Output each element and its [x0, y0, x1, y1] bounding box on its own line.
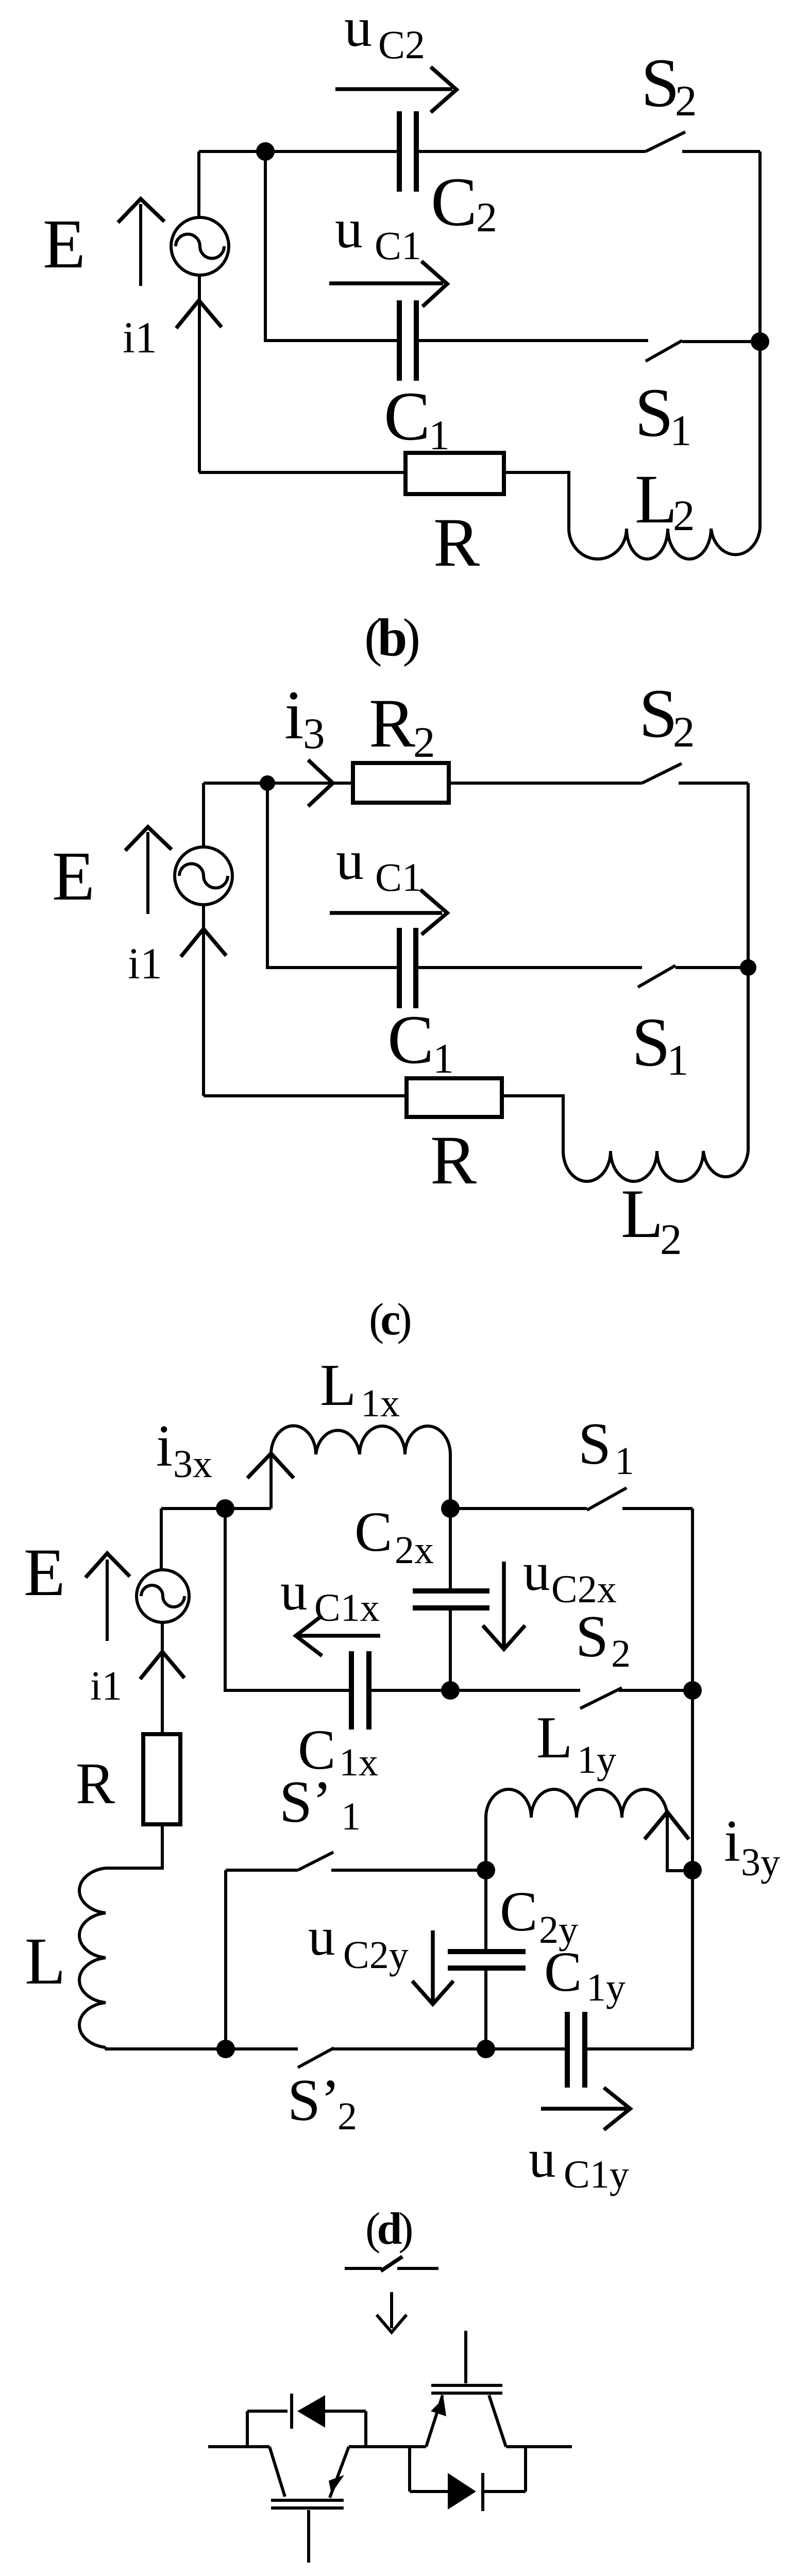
svg-text:1: 1	[667, 1036, 689, 1084]
IGBT Q1 emitter slant	[330, 2447, 349, 2498]
capacitor C2	[399, 111, 416, 192]
uC1x left arrow	[296, 1616, 380, 1656]
svg-text:3y: 3y	[741, 1841, 780, 1884]
current arrow i1 chevron	[181, 929, 226, 957]
svg-text:i: i	[284, 677, 304, 754]
wire below source	[198, 275, 201, 472]
wire third row vertical	[224, 1870, 227, 2049]
E arrow	[146, 832, 149, 914]
diode D1 branch	[247, 2410, 366, 2413]
svg-text:L: L	[635, 461, 677, 538]
svg-text:C2: C2	[378, 22, 425, 67]
AC source E	[137, 1570, 189, 1622]
svg-text:1x: 1x	[361, 1382, 400, 1425]
inductor L2	[563, 1151, 748, 1181]
svg-text:R: R	[369, 685, 415, 762]
switch S1	[587, 1488, 627, 1510]
svg-text:C: C	[384, 378, 430, 455]
node right	[740, 959, 756, 976]
uC1y right arrow	[541, 2088, 630, 2130]
E arrow	[106, 1560, 109, 1641]
svg-text:C1y: C1y	[564, 2153, 629, 2196]
svg-text:C: C	[387, 1002, 434, 1078]
wire top to switch	[416, 150, 646, 153]
main line right	[506, 2445, 572, 2448]
node A	[216, 1499, 234, 1518]
svg-text:u: u	[523, 1541, 550, 1602]
wire below source	[202, 905, 205, 1096]
svg-text:i: i	[156, 1413, 173, 1479]
svg-text:1: 1	[670, 406, 692, 455]
svg-text:2: 2	[611, 1632, 631, 1675]
wire resistor to inductor	[502, 1096, 563, 1151]
svg-text:u: u	[308, 1906, 335, 1967]
AC source E	[175, 847, 232, 905]
switch S'2	[298, 2048, 334, 2067]
node G	[683, 1861, 702, 1879]
diode D1 triangle	[297, 2395, 325, 2428]
wire node branch down	[265, 151, 399, 341]
svg-text:u: u	[344, 0, 372, 58]
right rail	[747, 783, 750, 1151]
emitter slant left with arrow	[426, 2395, 443, 2447]
svg-text:1y: 1y	[577, 1738, 616, 1782]
svg-text:C1: C1	[375, 223, 421, 268]
wire third row	[226, 1869, 298, 1872]
switch symbol	[345, 2267, 438, 2270]
svg-text:u: u	[280, 1561, 308, 1621]
node D	[683, 1681, 702, 1700]
wire second row	[225, 1509, 351, 1690]
wire mid to switch	[416, 339, 648, 342]
capacitor C2y	[448, 1952, 526, 1968]
IGBT Q1 gate bars	[271, 2500, 344, 2508]
svg-text:E: E	[52, 838, 95, 915]
wire node B down	[449, 1509, 452, 1591]
svg-text:2: 2	[337, 2095, 357, 2138]
node C	[441, 1681, 460, 1700]
inductor L1y	[486, 1789, 667, 1818]
node E	[477, 1861, 495, 1879]
wire bottom	[199, 471, 406, 474]
wire resistor to inductor	[504, 472, 569, 529]
svg-text:S: S	[641, 45, 680, 122]
wire top-left rail	[197, 151, 200, 217]
uC2 arrow	[335, 67, 457, 112]
switch S2	[646, 132, 685, 151]
svg-text:2: 2	[476, 194, 497, 241]
wire L1x right riser	[449, 1454, 452, 1509]
svg-text:S: S	[578, 1411, 611, 1477]
wire top	[161, 1507, 271, 1510]
switch S2	[580, 1688, 622, 1708]
right rail	[758, 151, 762, 529]
svg-text:S’: S’	[279, 1769, 332, 1835]
wire R2 to switch	[449, 782, 642, 785]
svg-text:S’: S’	[288, 2067, 340, 2133]
resistor R	[407, 1078, 502, 1117]
svg-text:E: E	[24, 1534, 65, 1610]
svg-text:C1: C1	[375, 855, 422, 900]
gate lead	[464, 2331, 467, 2383]
node bottom-left	[216, 2040, 235, 2058]
svg-text:(b): (b)	[364, 608, 418, 667]
node right	[751, 332, 769, 351]
svg-text:2x: 2x	[395, 1529, 434, 1572]
wire left rail top	[202, 783, 205, 847]
uC2y down arrow	[412, 1930, 453, 2004]
svg-text:L: L	[536, 1705, 572, 1770]
node top	[260, 775, 275, 791]
wire left rail top	[160, 1509, 163, 1570]
current arrow i1 chevron	[176, 300, 222, 328]
svg-text:(c): (c)	[369, 1295, 410, 1345]
svg-text:R: R	[433, 504, 480, 581]
wire bottom	[204, 1094, 407, 1097]
i3x riser with arrow	[269, 1454, 273, 1509]
diode D2 branch	[410, 2447, 526, 2492]
wire bottom	[106, 2047, 298, 2049]
inductor L1x	[271, 1426, 450, 1454]
switch S2	[642, 764, 682, 783]
wire second row to S2	[369, 1689, 580, 1692]
svg-text:C: C	[354, 1500, 392, 1563]
svg-text:1y: 1y	[586, 1966, 626, 2009]
svg-text:u: u	[336, 830, 364, 891]
svg-text:i1: i1	[123, 313, 157, 362]
AC source E	[171, 217, 229, 275]
svg-text:S: S	[576, 1604, 609, 1669]
wire R to L	[106, 1824, 162, 1868]
node top	[256, 142, 275, 161]
switch S1	[638, 965, 675, 987]
capacitor C1x	[351, 1651, 369, 1730]
uC1 arrow	[330, 890, 447, 935]
node B	[441, 1499, 460, 1518]
uC2x down arrow	[483, 1562, 525, 1649]
wire below source	[161, 1622, 164, 1734]
svg-text:S: S	[635, 375, 673, 451]
wire top to S1	[450, 1507, 587, 1510]
diode D2 triangle	[448, 2473, 476, 2510]
collector slant right	[489, 2395, 506, 2447]
gate bars	[431, 2385, 502, 2393]
inductor L2	[569, 529, 760, 559]
diode D1 cathode bar	[290, 2394, 293, 2429]
svg-text:1: 1	[341, 1795, 361, 1838]
svg-text:1: 1	[615, 1439, 634, 1483]
svg-text:R: R	[430, 1122, 477, 1199]
svg-text:C: C	[431, 164, 477, 241]
wire mid to switch	[416, 966, 642, 969]
switch S1	[646, 341, 682, 361]
inductor L vertical	[79, 1868, 106, 2047]
switch S'1	[298, 1852, 333, 1870]
capacitor C1	[399, 300, 416, 381]
wire L1y left riser	[484, 1818, 487, 1870]
svg-text:1: 1	[433, 1035, 454, 1082]
wire bottom right	[585, 2047, 692, 2050]
svg-text:u: u	[529, 2128, 556, 2189]
svg-text:2: 2	[660, 1215, 682, 1264]
wire top	[204, 782, 353, 785]
svg-text:C: C	[544, 1940, 582, 2003]
current arrow i1 chevron	[140, 1652, 184, 1679]
svg-text:i: i	[724, 1808, 740, 1874]
resistor R vertical	[143, 1734, 180, 1824]
node F	[477, 2040, 495, 2058]
svg-text:C2y: C2y	[343, 1934, 409, 1977]
i3 arrow chevron	[308, 760, 333, 806]
svg-text:L: L	[320, 1352, 356, 1418]
svg-text:S: S	[632, 1004, 670, 1081]
svg-text:(d): (d)	[365, 2204, 412, 2254]
down arrow	[390, 2292, 393, 2328]
svg-text:R: R	[76, 1751, 115, 1816]
svg-text:C: C	[500, 1880, 537, 1943]
wire L1y right riser with arrow	[667, 1814, 692, 1871]
svg-text:u: u	[335, 198, 363, 260]
svg-text:C1x: C1x	[314, 1586, 380, 1630]
svg-text:2: 2	[675, 77, 697, 125]
capacitor C1	[399, 928, 416, 1008]
diode D2 cathode bar	[481, 2473, 484, 2511]
main line left	[208, 2445, 426, 2448]
E arrow	[139, 204, 142, 286]
svg-text:2: 2	[413, 718, 435, 767]
svg-text:1x: 1x	[339, 1741, 378, 1784]
right rail	[691, 1509, 694, 2049]
wire top	[199, 150, 399, 153]
uC1 arrow	[329, 261, 447, 307]
capacitor C1y	[567, 2012, 585, 2088]
svg-text:(e): (e)	[367, 2569, 409, 2576]
svg-text:i1: i1	[90, 1664, 122, 1709]
svg-text:S: S	[639, 675, 678, 752]
IGBT Q1 collector slant	[269, 2447, 285, 2497]
svg-text:2: 2	[673, 708, 695, 756]
IGBT Q1 emitter arrow	[329, 2475, 344, 2494]
svg-text:2: 2	[673, 492, 695, 540]
IGBT Q1 gate lead	[307, 2510, 310, 2563]
svg-text:E: E	[43, 206, 86, 283]
svg-text:3x: 3x	[173, 1443, 212, 1486]
wire C2y branch	[484, 1870, 487, 1952]
resistor R2	[353, 763, 449, 803]
svg-text:L: L	[621, 1176, 663, 1252]
IGBT Q2 emitter arrow	[431, 2398, 446, 2416]
wire node branch down	[267, 783, 399, 968]
svg-text:L: L	[25, 1924, 65, 1998]
svg-text:i1: i1	[128, 939, 162, 988]
capacitor C2x	[413, 1591, 489, 1608]
resistor R	[406, 453, 504, 494]
svg-text:3: 3	[303, 709, 325, 758]
